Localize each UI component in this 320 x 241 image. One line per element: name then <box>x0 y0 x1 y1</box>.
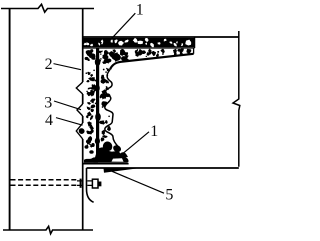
leader line to label 3 <box>54 101 81 110</box>
joint centre heavy sealant line <box>96 49 99 162</box>
band2 sloped bottom edge <box>110 54 194 70</box>
bracket seat line <box>83 163 129 165</box>
bolt shank left end <box>77 181 82 186</box>
band2 right edge <box>193 48 195 54</box>
fine dot speckles <box>86 51 165 146</box>
keyway tooth 2 on column face <box>77 104 83 116</box>
bolt shank right <box>87 181 92 186</box>
column bottom edge line with break symbol <box>3 226 93 233</box>
svg-text:3: 3 <box>44 94 52 111</box>
blotches on sealant line <box>95 58 101 66</box>
bottom sealant black mass <box>84 139 129 163</box>
leader line to label 2 <box>54 64 82 70</box>
dashed hidden line upper <box>11 179 78 181</box>
column top edge line with break symbol <box>1 4 94 12</box>
panel top edge line <box>83 36 239 38</box>
dashed hidden line lower <box>11 184 78 186</box>
aggregate blob inside tooth 3 <box>79 128 85 134</box>
panel right edge wire with break symbol <box>233 31 240 167</box>
band1 concrete aggregate: black band with white stone holes <box>83 37 195 48</box>
panel soffit long line <box>87 167 239 169</box>
panel left keyed profile wavy edge <box>105 70 119 148</box>
bolt head box <box>92 179 98 188</box>
joint strip concrete aggregate <box>86 49 111 148</box>
bolt end tab <box>98 182 101 187</box>
svg-text:4: 4 <box>45 112 53 129</box>
svg-text:1: 1 <box>136 2 144 19</box>
keyway tooth 3 on column face <box>76 123 82 139</box>
svg-text:5: 5 <box>165 186 173 203</box>
band2 left cluster blobs <box>107 53 127 62</box>
leader line to label 5 <box>112 171 164 193</box>
keyway tooth 1 on column face <box>76 82 82 94</box>
white notch in sealant mass <box>112 158 124 162</box>
drip flashing wedge <box>104 168 138 172</box>
svg-text:2: 2 <box>45 56 53 73</box>
band1 bottom line <box>83 47 195 49</box>
joint top cluster blobs <box>85 50 96 60</box>
svg-text:1: 1 <box>150 123 158 140</box>
leader line to label 1 bottom <box>118 132 150 158</box>
bolt nut bar left <box>80 179 82 188</box>
leader line to label 4 <box>56 118 83 126</box>
column right face wire <box>82 9 84 231</box>
band2 concrete aggregate <box>97 48 191 62</box>
leader line to label 1 top <box>110 13 136 41</box>
band1 right edge <box>194 37 196 48</box>
column left face wire <box>9 9 11 231</box>
bracket vertical leg with hook <box>87 168 94 202</box>
